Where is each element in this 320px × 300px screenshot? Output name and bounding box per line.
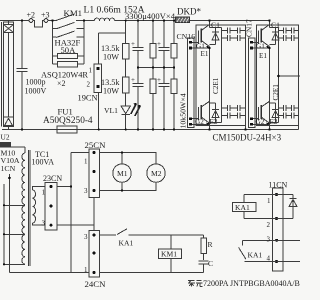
svg-text:1: 1: [84, 266, 88, 274]
svg-text:KA1: KA1: [248, 251, 263, 260]
svg-text:G2: G2: [195, 118, 204, 126]
svg-text:+: +: [157, 76, 161, 84]
svg-text:25CN: 25CN: [85, 140, 107, 150]
svg-text:E2: E2: [210, 118, 218, 126]
svg-text:KM1: KM1: [161, 250, 177, 259]
svg-text:CM150DU-24H×3: CM150DU-24H×3: [213, 133, 282, 143]
svg-text:3: 3: [267, 236, 271, 244]
svg-text:3300μ400V×4: 3300μ400V×4: [125, 11, 176, 21]
svg-text:G1: G1: [256, 43, 265, 51]
svg-text:+: +: [131, 76, 135, 84]
svg-text:2: 2: [87, 80, 91, 88]
svg-text:3: 3: [42, 220, 46, 228]
svg-text:E2: E2: [270, 118, 278, 126]
svg-text:4: 4: [267, 255, 271, 263]
svg-text:M2: M2: [151, 169, 162, 178]
svg-text:A50QS250-4: A50QS250-4: [43, 116, 93, 126]
svg-text:100VA: 100VA: [32, 158, 55, 167]
svg-text:24CN: 24CN: [85, 279, 107, 289]
svg-text:10k50W×4: 10k50W×4: [179, 93, 188, 128]
svg-text:CN17: CN17: [245, 19, 254, 37]
svg-text:VL1: VL1: [104, 106, 118, 115]
svg-text:1000V: 1000V: [25, 87, 47, 96]
svg-text:+: +: [131, 40, 135, 48]
svg-text:C: C: [208, 259, 213, 268]
svg-text:+2: +2: [27, 11, 36, 20]
svg-text:+3: +3: [41, 11, 50, 20]
svg-text:3: 3: [84, 187, 88, 195]
svg-text:G2: G2: [256, 118, 265, 126]
svg-text:1: 1: [42, 189, 46, 197]
svg-text:C2E1: C2E1: [212, 77, 220, 94]
svg-text:C1: C1: [211, 21, 220, 30]
svg-text:11CN: 11CN: [269, 181, 288, 190]
svg-text:1: 1: [89, 67, 93, 75]
svg-text:DKD*: DKD*: [177, 7, 201, 17]
svg-text:×2: ×2: [57, 79, 66, 88]
svg-text:C1: C1: [271, 21, 280, 30]
svg-text:1: 1: [84, 158, 88, 166]
svg-text:E1: E1: [201, 50, 209, 58]
svg-text:23CN: 23CN: [43, 174, 62, 183]
svg-text:U2: U2: [1, 133, 10, 142]
svg-text:KA1: KA1: [119, 239, 134, 248]
svg-text:19CN: 19CN: [78, 94, 98, 103]
svg-text:CN16: CN16: [177, 32, 196, 41]
svg-text:50A: 50A: [61, 45, 77, 55]
svg-text:KA1: KA1: [235, 203, 250, 212]
svg-text:2: 2: [267, 221, 271, 229]
svg-text:10W: 10W: [103, 53, 119, 62]
svg-text:10W: 10W: [103, 87, 119, 96]
svg-text:+: +: [157, 40, 161, 48]
svg-text:1000p: 1000p: [26, 78, 46, 87]
svg-text:C2E1: C2E1: [272, 84, 280, 101]
svg-text:E1: E1: [259, 52, 267, 60]
svg-text:M1: M1: [117, 169, 128, 178]
svg-text:7200PA JNTPBGBA0040A/B: 7200PA JNTPBGBA0040A/B: [203, 279, 300, 288]
svg-text:KM1: KM1: [64, 8, 83, 18]
svg-text:3: 3: [84, 233, 88, 241]
svg-text:1CN: 1CN: [1, 164, 16, 173]
svg-text:FU1: FU1: [58, 107, 73, 117]
svg-text:1: 1: [267, 197, 271, 205]
